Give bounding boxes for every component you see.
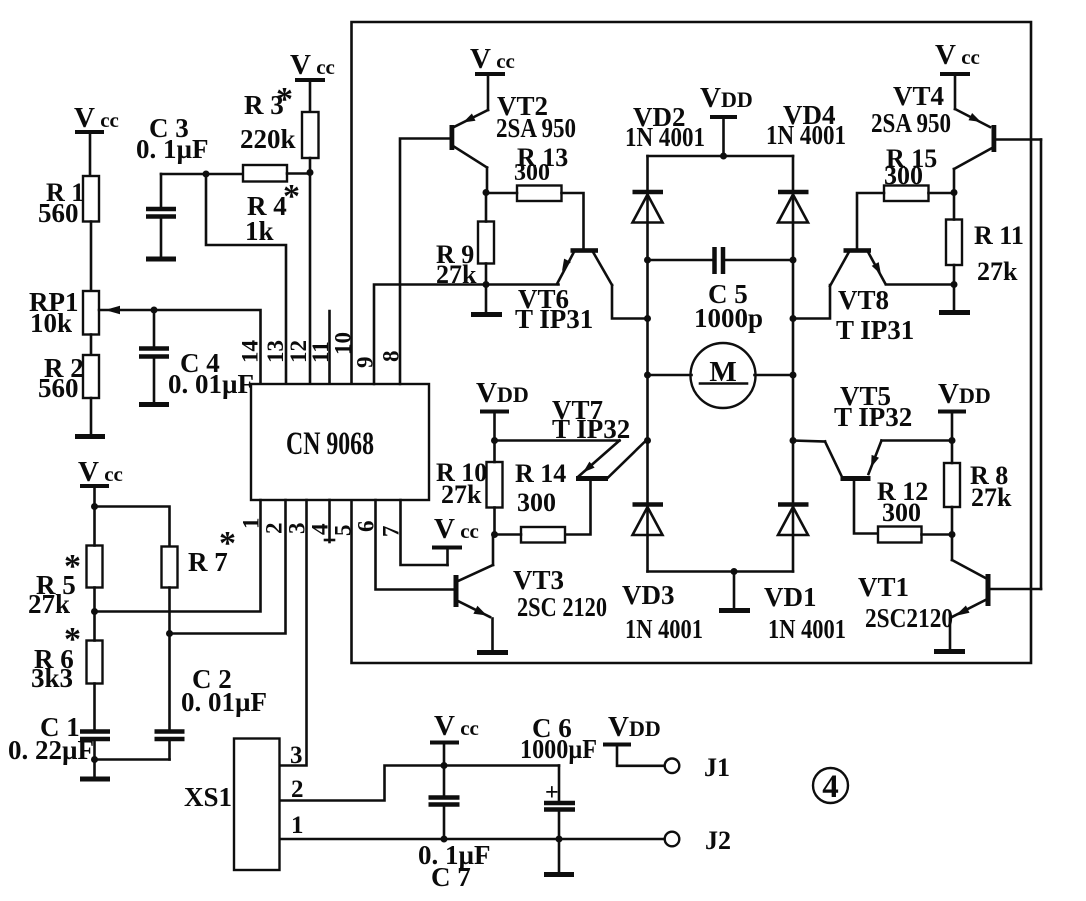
wire XS1 pin2 to Vcc rail (280, 766, 559, 801)
transistor VT3 (2SC2120 NPN) (454, 535, 608, 651)
svg-text:C 7: C 7 (431, 862, 471, 892)
diode VD2 (625, 102, 705, 223)
svg-text:VDD: VDD (700, 82, 753, 114)
wire VT8 emitter to R11 (886, 283, 954, 286)
capacitor C6 electrolytic (520, 713, 597, 872)
svg-text:2SA 950: 2SA 950 (496, 113, 576, 143)
ground (below R11) (939, 310, 970, 315)
svg-text:VT3: VT3 (513, 565, 564, 595)
node C5 left (644, 257, 651, 264)
transistor VT7 (TIP32 PNP) (552, 395, 648, 535)
wire R9 to ground (485, 285, 488, 313)
power symbol Vcc (above R5/R7) (78, 456, 123, 507)
node C7 bottom on J2 rail (441, 836, 448, 843)
svg-text:VD1: VD1 (764, 582, 817, 612)
svg-text:14: 14 (238, 340, 263, 364)
wire XS1 pin1 to J2 (280, 838, 665, 841)
terminal J1 (665, 753, 730, 782)
node R10 / R14 / VT3 collector (491, 531, 498, 538)
capacitor C4 (139, 310, 254, 403)
capacitor C7 (418, 766, 491, 893)
wire right leg middle (792, 319, 795, 441)
svg-text:27k: 27k (971, 483, 1012, 512)
motor M (648, 343, 794, 408)
svg-text:4: 4 (822, 769, 839, 805)
svg-text:*: * (219, 525, 236, 562)
svg-text:1N 4001: 1N 4001 (768, 614, 846, 644)
node left leg / VT6 collector (644, 315, 651, 322)
wire node to pin 1 (95, 500, 261, 612)
transistor VT1 (2SC2120 NPN) (858, 535, 1041, 650)
svg-text:300: 300 (517, 488, 556, 517)
svg-text:1N 4001: 1N 4001 (625, 614, 703, 644)
svg-text:VDD: VDD (608, 711, 661, 743)
svg-text:3k3: 3k3 (31, 663, 73, 693)
power symbol Vcc (above VT2) (470, 43, 515, 75)
svg-text:1N 4001: 1N 4001 (625, 122, 705, 152)
power symbol VDD (above J1) (603, 711, 665, 766)
svg-text:T IP32: T IP32 (552, 414, 630, 444)
svg-text:27k: 27k (28, 589, 70, 619)
svg-text:5: 5 (331, 525, 356, 537)
power symbol VDD (above R8) (938, 378, 991, 441)
svg-text:R 11: R 11 (974, 221, 1024, 250)
svg-text:*: * (276, 81, 293, 118)
node R9 bottom / pin9 wire (483, 281, 490, 288)
svg-text:300: 300 (882, 498, 921, 527)
pin 11 stub (328, 311, 331, 384)
svg-text:VDD: VDD (938, 378, 991, 410)
wire bridge leg to VT5 collector (793, 441, 825, 442)
pin 3 wire down to XS1 (280, 500, 307, 766)
node VT4 collector / R15 / R11 (951, 189, 958, 196)
wire right leg upper (792, 156, 795, 319)
node Vcc/C7 on rail (441, 762, 448, 769)
node motor left (644, 372, 651, 379)
svg-text:2SA 950: 2SA 950 (871, 108, 951, 138)
wire node to R7 top (95, 507, 170, 547)
wire VT5 emitter to VDD (882, 439, 953, 442)
svg-text:*: * (64, 548, 81, 585)
wire bottom bridge rail (648, 570, 794, 573)
ground (below C3) (146, 257, 176, 262)
ground (below C4) (139, 402, 169, 407)
transistor VT8 (TIP31 NPN) (793, 248, 914, 345)
capacitor C1 (8, 712, 110, 765)
figure number 4 (circled) (813, 768, 848, 805)
resistor R2 (38, 353, 99, 403)
capacitor C2 (155, 664, 268, 760)
svg-text:XS1: XS1 (184, 782, 232, 812)
wire right outer line (VT4 base to VT1 collector) (1040, 140, 1043, 590)
node C5 right (790, 257, 797, 264)
resistor R13 (486, 143, 584, 249)
node Vcc/R5/R7 (91, 503, 98, 510)
svg-text:1k: 1k (245, 216, 274, 246)
pin 4 stub with tick (325, 500, 334, 542)
svg-text:2: 2 (262, 523, 287, 535)
diode VD3 (622, 505, 703, 645)
svg-text:2SC2120: 2SC2120 (865, 603, 953, 633)
transistor VT6 (TIP31 NPN) (515, 248, 648, 334)
wire pin 7 to Vcc (401, 500, 448, 565)
wire C3 to R4 left (161, 173, 243, 176)
node R8 / R12 / VT1 base (949, 531, 956, 538)
ground (below C6) (544, 872, 574, 877)
svg-text:560: 560 (38, 198, 79, 228)
svg-text:27k: 27k (441, 480, 482, 509)
node bottom rail center (731, 568, 738, 575)
svg-text:R 14: R 14 (515, 459, 566, 488)
node right leg / VT5 collector (790, 437, 797, 444)
node C3/R4/pin13 (203, 171, 210, 178)
svg-text:1: 1 (291, 812, 304, 839)
terminal J2 (665, 826, 731, 855)
ground (below R9) (471, 312, 502, 317)
ground (below VT1) (934, 649, 965, 654)
wire R1 to RP1 (90, 222, 93, 292)
power symbol Vcc (pin 7) (432, 513, 479, 565)
resistor R10 (436, 441, 503, 535)
svg-text:T IP31: T IP31 (836, 315, 914, 345)
svg-text:11: 11 (308, 341, 333, 363)
power symbol Vcc (above C7) (430, 710, 479, 766)
resistor R8 (944, 441, 1012, 535)
svg-text:J1: J1 (704, 753, 730, 782)
svg-text:13: 13 (263, 340, 288, 363)
node C6 bottom on J2 rail (556, 836, 563, 843)
resistor R6 (31, 612, 103, 730)
resistor R7 (162, 525, 237, 731)
power symbol Vcc (above VT4) (935, 39, 980, 74)
svg-text:300: 300 (514, 160, 550, 186)
resistor R3 (240, 81, 319, 173)
svg-text:J2: J2 (705, 826, 731, 855)
node R5/R6/pin1 (91, 608, 98, 615)
resistor R14 (495, 459, 567, 543)
potentiometer RP1 (29, 287, 120, 338)
node R3/R4/pin12 (307, 169, 314, 176)
wire to ground (733, 572, 736, 609)
resistor R4 (243, 165, 310, 246)
svg-text:0. 01µF: 0. 01µF (181, 687, 267, 717)
capacitor C3 (136, 113, 209, 257)
ground (below C1) (80, 777, 110, 782)
capacitor C5 (648, 247, 794, 333)
connector XS1 (184, 739, 280, 871)
svg-text:27k: 27k (977, 257, 1018, 286)
wire pin 9 to VT6 emitter (374, 285, 559, 385)
resistor R9 (436, 193, 494, 290)
power symbol Vcc (top left, above R1) (74, 102, 119, 176)
wire to ground (93, 760, 96, 778)
svg-text:VD3: VD3 (622, 580, 675, 610)
ground (bridge center) (719, 608, 750, 613)
node VDD / R10 / VT7 emitter wire (491, 437, 498, 444)
svg-text:VT8: VT8 (838, 285, 889, 315)
wire C1 to C2 bottom (95, 758, 170, 761)
svg-text:VT1: VT1 (858, 572, 909, 602)
svg-text:220k: 220k (240, 124, 296, 154)
wire VDD to VT7 emitter (495, 439, 620, 442)
outer dashed border box of driver section (352, 22, 1032, 663)
wire node to pin 2 (170, 500, 286, 634)
wire left leg upper (646, 156, 649, 319)
diode VD4 (766, 100, 846, 223)
transistor VT2 (2SA950 PNP) (450, 74, 577, 193)
svg-text:1000p: 1000p (694, 303, 763, 333)
svg-text:560: 560 (38, 373, 79, 403)
svg-text:2SC 2120: 2SC 2120 (517, 592, 607, 622)
power symbol VDD (above R10) (476, 377, 529, 441)
svg-text:CN 9068: CN 9068 (286, 426, 374, 462)
node R11 bottom / VT8 emitter (951, 281, 958, 288)
node VDD / R8 / VT5 emitter wire (949, 437, 956, 444)
wire pin 8 to VT2 base (400, 139, 450, 385)
wire left leg middle (646, 319, 649, 441)
wire R11 to ground (953, 285, 956, 311)
node left leg / VT7 collector (644, 437, 651, 444)
wire pin 6 to VT3 base (376, 500, 454, 590)
svg-text:300: 300 (884, 161, 923, 190)
svg-text:10k: 10k (30, 308, 72, 338)
transistor VT5 (TIP32 PNP) (825, 381, 912, 534)
svg-text:10: 10 (331, 332, 356, 355)
node VT2 collector / R13 / R9 (483, 189, 490, 196)
wire VT4 base to right outer line (997, 138, 1042, 141)
svg-text:2: 2 (291, 776, 304, 803)
svg-text:*: * (64, 621, 81, 658)
ground (below R2) (75, 434, 105, 439)
node right leg / VT8 collector (790, 315, 797, 322)
svg-text:1000µF: 1000µF (520, 734, 597, 764)
node (wiper / C4) (151, 307, 158, 314)
power symbol Vcc (above R3) (290, 49, 335, 112)
svg-text:1N 4001: 1N 4001 (766, 120, 846, 150)
svg-text:VT4: VT4 (893, 81, 944, 111)
wire node down and right to pin 13 (206, 174, 286, 384)
wire top rail (648, 155, 794, 158)
resistor R11 (946, 193, 1024, 287)
svg-text:T IP31: T IP31 (515, 304, 593, 334)
resistor R1 (38, 176, 99, 228)
svg-text:VDD: VDD (476, 377, 529, 409)
node R7/C2/pin2 (166, 630, 173, 637)
wire R2 to ground (90, 398, 93, 435)
wire RP1 wiper to pin 14 (99, 310, 261, 384)
wire left leg lower (646, 441, 649, 572)
node C1/C2 bottom (91, 756, 98, 763)
wire right leg lower (792, 441, 795, 572)
resistor R12 (877, 477, 952, 543)
resistor R5 (28, 507, 103, 620)
resistor R15 (857, 144, 954, 249)
transistor VT4 (2SA950 PNP) (871, 74, 996, 193)
svg-text:T IP32: T IP32 (834, 402, 912, 432)
svg-text:*: * (283, 178, 300, 215)
svg-text:0. 01µF: 0. 01µF (168, 369, 254, 399)
wire RP1 to R2 (90, 335, 93, 356)
wire node to pin 12 (309, 173, 312, 385)
svg-text:3: 3 (290, 742, 303, 769)
IC U1 CN9068 (251, 384, 429, 500)
ground (below VT3) (477, 650, 508, 655)
svg-text:0. 1µF: 0. 1µF (136, 134, 209, 164)
node motor right (790, 372, 797, 379)
power symbol VDD (top center) (700, 82, 753, 156)
node VDD on top rail (720, 153, 727, 160)
diode VD1 (764, 505, 846, 645)
